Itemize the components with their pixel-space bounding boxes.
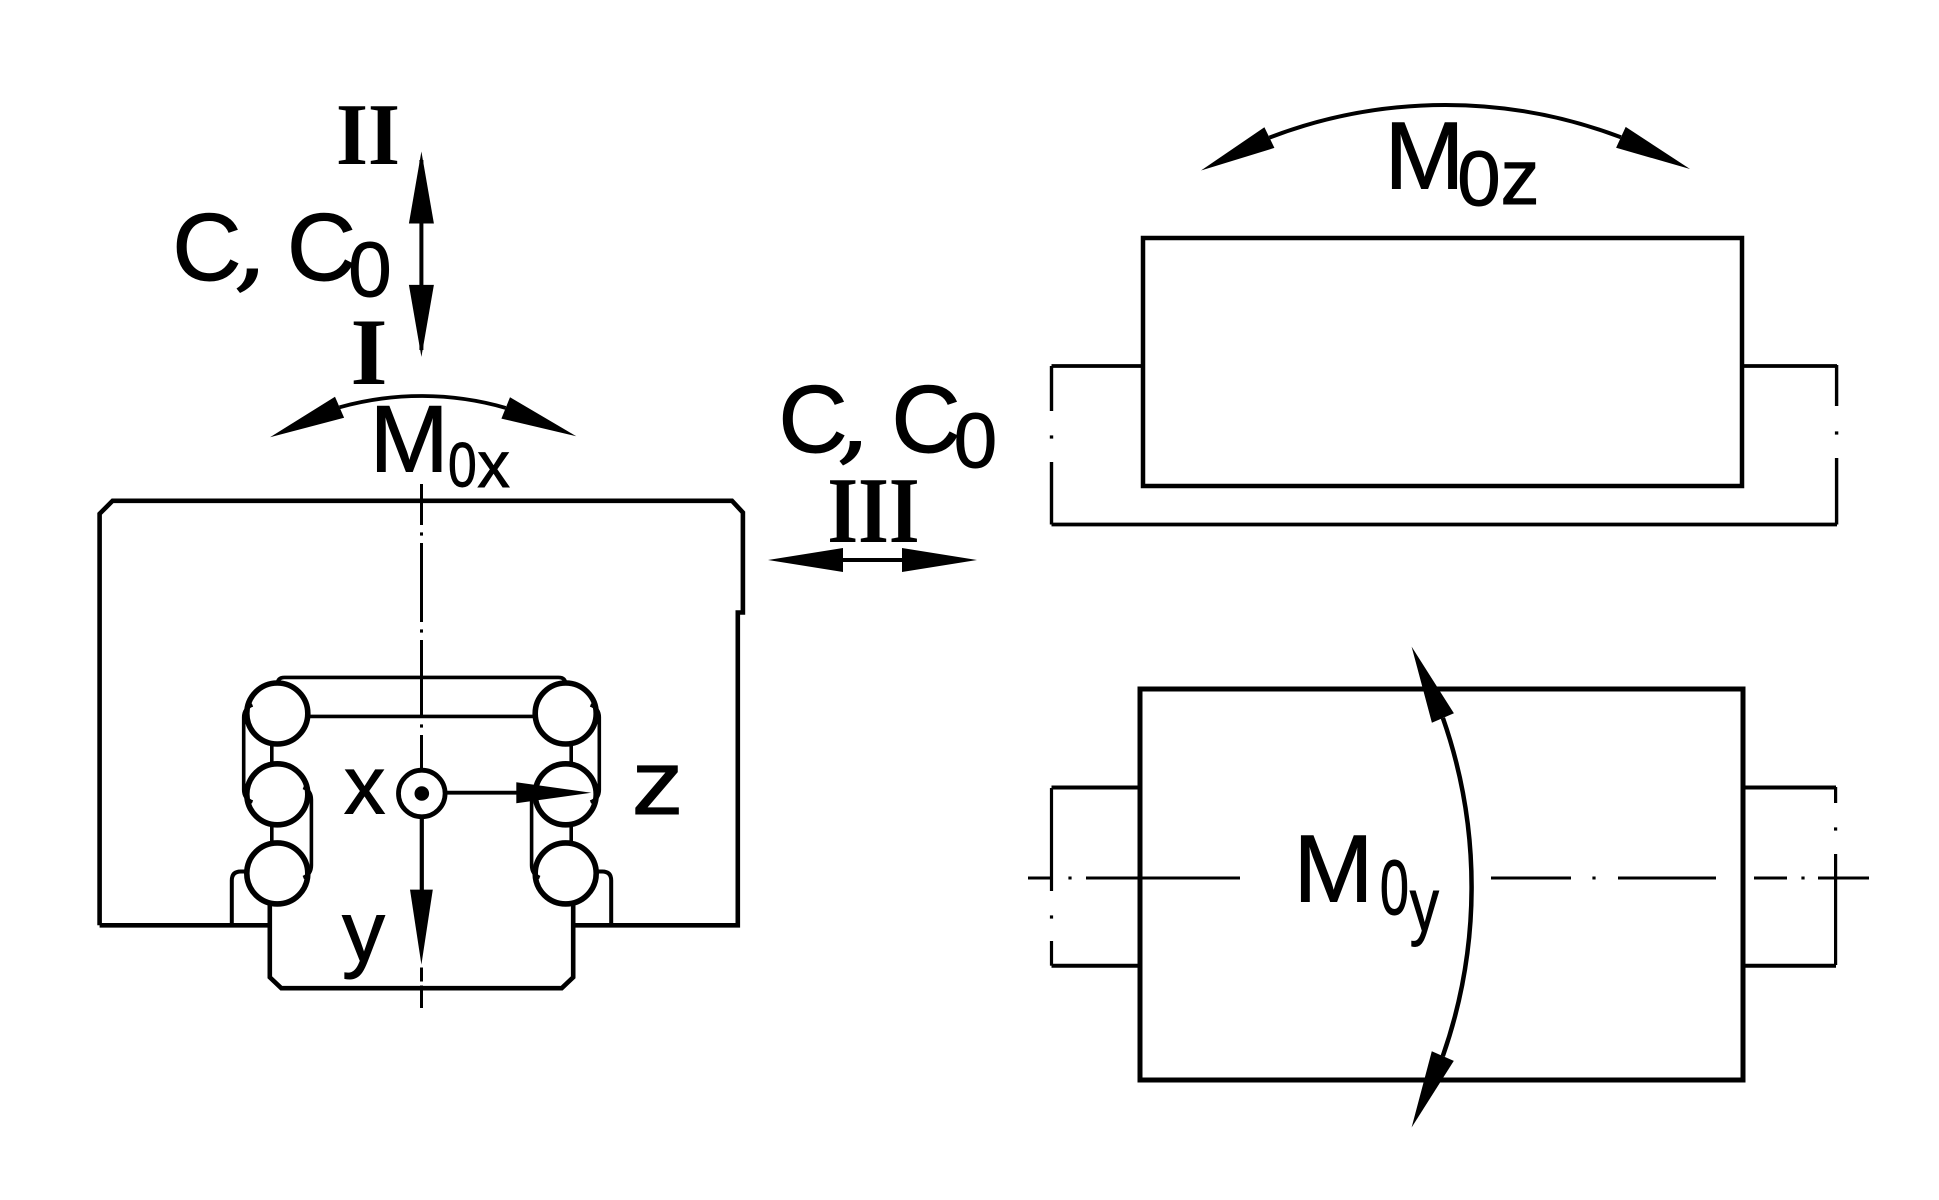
svg-text:0: 0 — [1457, 134, 1500, 222]
svg-text:III: III — [827, 459, 919, 563]
carriage block outline (cross-section view) — [100, 501, 743, 926]
raceway inner right — [532, 788, 540, 878]
load direction II / I double arrow — [419, 160, 423, 350]
y axis arrow — [420, 817, 424, 896]
carriage lower lip left — [232, 872, 247, 926]
bottom-right side view: carriage rectangle — [1140, 689, 1743, 1080]
svg-text:M: M — [1385, 103, 1465, 210]
svg-text:x: x — [477, 428, 510, 501]
carriage lower lip right — [596, 872, 611, 926]
load direction III double arrow — [840, 558, 905, 562]
raceway line top 2 — [308, 715, 535, 719]
svg-text:0: 0 — [954, 396, 997, 484]
raceway outer right — [591, 705, 600, 802]
svg-text:M: M — [370, 387, 449, 493]
rail stubs — [1052, 788, 1837, 966]
raceway outer left — [244, 705, 253, 802]
raceway inner left — [303, 788, 311, 878]
rail horizontal edges — [1052, 366, 1838, 525]
horizontal centerline — [1028, 877, 1053, 880]
svg-text:z: z — [1501, 133, 1540, 221]
svg-text:II: II — [336, 86, 400, 183]
svg-text:C: C — [172, 194, 241, 301]
ball connectors right — [569, 745, 573, 844]
svg-text:y: y — [1410, 864, 1440, 948]
rail stub break lines — [1050, 788, 1053, 891]
moment arc M0y — [1443, 718, 1472, 1056]
moment arc M0x — [340, 396, 506, 408]
raceway line top 1 — [277, 677, 565, 684]
svg-text:C: C — [778, 366, 847, 473]
svg-text:M: M — [1294, 815, 1374, 922]
balls (6 circles) — [247, 683, 596, 904]
ball connectors left — [270, 745, 274, 844]
vertical centerline (dash-dot) — [420, 484, 423, 525]
rail end break lines (dash-dot) — [1050, 366, 1053, 411]
svg-text:x: x — [344, 739, 386, 832]
moment arc M0z — [1269, 105, 1621, 138]
svg-text:C: C — [891, 366, 960, 473]
svg-text:0: 0 — [448, 431, 477, 501]
origin symbol (x axis out of plane) — [399, 770, 446, 817]
svg-text:C: C — [287, 194, 356, 301]
z axis arrow — [446, 791, 524, 795]
svg-text:0: 0 — [1380, 844, 1409, 931]
top-right side view: carriage rectangle — [1143, 238, 1742, 486]
svg-text:y: y — [342, 884, 385, 980]
rail profile bottom (cross-section) — [270, 903, 573, 988]
svg-text:z: z — [632, 732, 684, 834]
